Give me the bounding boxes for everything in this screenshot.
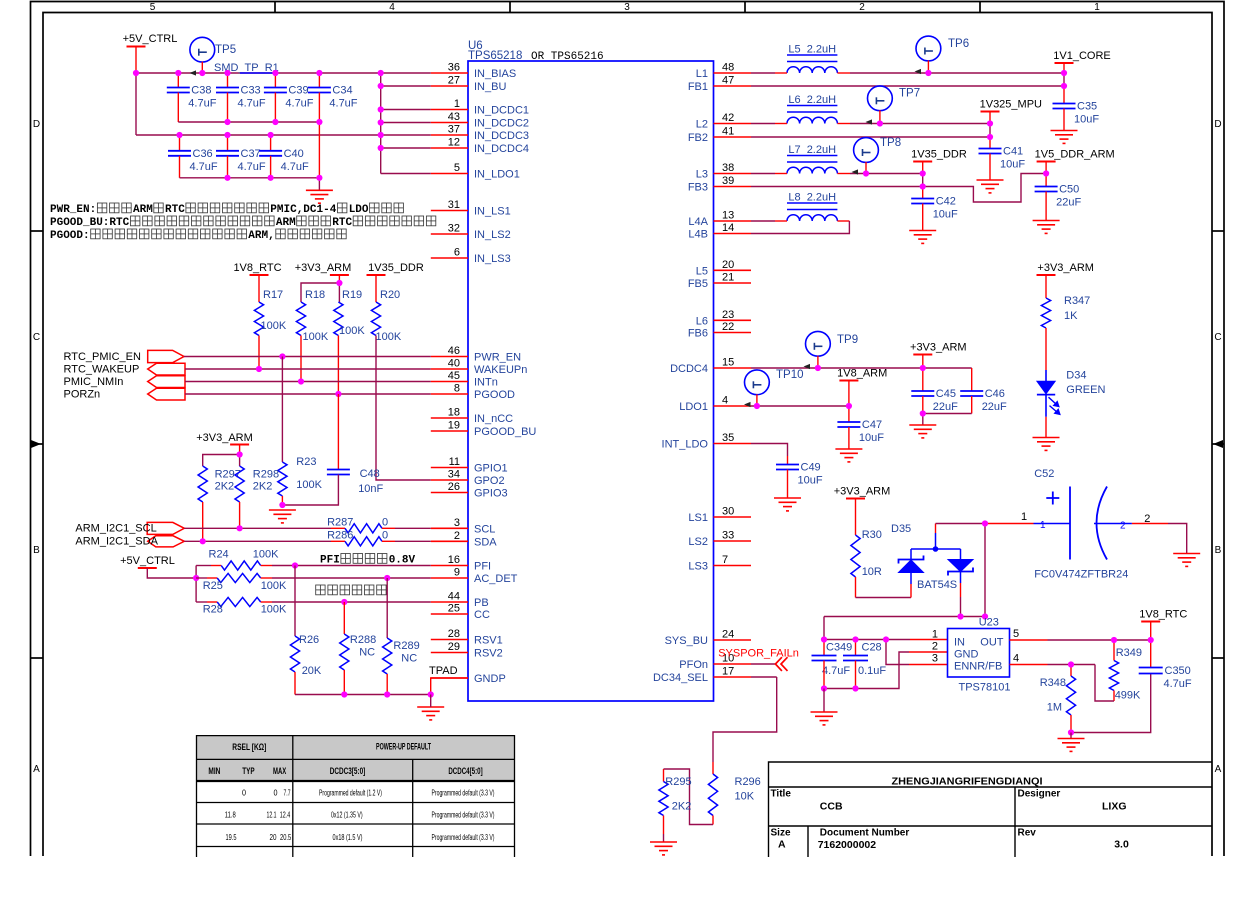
svg-text:5: 5 [1013, 628, 1019, 640]
wire TP8 stem [865, 162, 867, 174]
capacitor C34 [318, 73, 320, 88]
svg-text:C33: C33 [241, 85, 261, 97]
ground R295 [650, 842, 677, 855]
wire C52 node down to backup bus [984, 524, 986, 617]
svg-text:L4B: L4B [688, 229, 708, 241]
svg-text:34: 34 [448, 469, 460, 481]
svg-text:R287: R287 [327, 517, 353, 529]
svg-text:28: 28 [448, 628, 460, 640]
wire R24 left [196, 565, 211, 567]
svg-text:R289: R289 [393, 640, 419, 652]
wire C46 bottom to C45 [923, 413, 972, 415]
capacitor C39 [274, 73, 276, 88]
svg-text:1M: 1M [1047, 702, 1062, 714]
svg-text:INT_LDO: INT_LDO [662, 439, 709, 451]
svg-text:1V35_DDR: 1V35_DDR [368, 262, 424, 274]
svg-text:2: 2 [932, 641, 938, 653]
svg-text:ARM_I2C1_SDA: ARM_I2C1_SDA [75, 536, 158, 548]
resistor R20 [375, 275, 377, 302]
wire R348 bottom [1070, 715, 1072, 733]
svg-text:21: 21 [722, 272, 734, 284]
svg-text:4.7uF: 4.7uF [281, 161, 309, 173]
wire +5V stem [135, 47, 137, 74]
wire L2 to L6 [751, 123, 775, 125]
svg-text:16: 16 [448, 554, 460, 566]
svg-text:IN_LS3: IN_LS3 [474, 253, 511, 265]
svg-text:24: 24 [722, 629, 734, 641]
svg-text:B: B [1215, 545, 1222, 556]
U6 left pin 2 SDA [431, 540, 468, 542]
wire L4A to L8 [751, 220, 775, 222]
svg-text:GND: GND [954, 649, 979, 661]
junction dots ldo1 [754, 403, 760, 409]
svg-text:+3V3_ARM: +3V3_ARM [1037, 262, 1094, 274]
svg-text:INTn: INTn [474, 377, 498, 389]
svg-text:Document Number: Document Number [820, 828, 910, 839]
power +3V3_ARM led [1037, 274, 1056, 276]
wire PWR_EN row [184, 356, 431, 358]
svg-text:OR TPS65216: OR TPS65216 [531, 51, 604, 63]
junction dots 1V35_DDR [863, 170, 869, 176]
svg-text:2: 2 [859, 2, 865, 13]
svg-text:4.7uF: 4.7uF [190, 161, 218, 173]
svg-text:Designer: Designer [1018, 789, 1061, 800]
junction dots bus2 [176, 132, 182, 138]
U6 right pin 4 LDO1 [714, 405, 752, 407]
wire L5 to 1V1_CORE [837, 72, 850, 74]
svg-text:10R: 10R [862, 566, 882, 578]
title block [769, 762, 1213, 857]
U6 right pin 7 LS3 [714, 565, 752, 567]
svg-text:100K: 100K [261, 580, 287, 592]
U6 right pin 13 L4A [714, 220, 752, 222]
U6 left pin 32 IN_LS2 [431, 233, 468, 235]
svg-text:C48: C48 [360, 468, 380, 480]
U6 left pin 40 WAKEUPn [431, 368, 468, 370]
svg-text:10nF: 10nF [358, 483, 383, 495]
svg-text:41: 41 [722, 126, 734, 138]
svg-text:18: 18 [448, 407, 460, 419]
power +5V_CTRL top [127, 46, 146, 48]
wire branch to R18 [301, 283, 339, 302]
svg-text:10uF: 10uF [798, 475, 823, 487]
wire R23 to gnd node [281, 496, 283, 505]
resistor R17 [258, 275, 260, 302]
svg-text:15: 15 [722, 357, 734, 369]
svg-text:A: A [778, 839, 786, 851]
svg-text:4.7uF: 4.7uF [822, 665, 850, 677]
svg-text:+5V_CTRL: +5V_CTRL [123, 33, 178, 45]
ground C50 [1033, 221, 1060, 234]
wire to ground dcdc4 [922, 414, 924, 426]
svg-text:FB3: FB3 [688, 182, 708, 194]
svg-text:R347: R347 [1064, 295, 1090, 307]
wire backup bus [824, 616, 985, 618]
U6 left pin 37 IN_DCDC3 [431, 134, 468, 136]
power label 1V325_MPU [981, 111, 1000, 113]
capacitor C45 [922, 368, 924, 391]
U6 left pin 36 IN_BIAS [431, 72, 468, 74]
U6 right pin 39 FB3 [714, 186, 752, 188]
svg-text:MIN: MIN [208, 766, 220, 776]
svg-text:PGOOD:: PGOOD: [50, 230, 90, 242]
U6 left pin 46 PWR_EN [431, 356, 468, 358]
svg-text:27: 27 [448, 75, 460, 87]
svg-text:GNDP: GNDP [474, 673, 506, 685]
svg-text:RTC: RTC [165, 204, 185, 216]
wire L7 to 1V35_DDR [837, 173, 850, 175]
wire 1V8_RTC stem [1150, 622, 1152, 641]
svg-text:40: 40 [448, 358, 460, 370]
svg-text:A: A [33, 764, 40, 775]
svg-text:B: B [33, 545, 40, 556]
capacitor C35 [1063, 86, 1065, 104]
wire FB2 row [751, 136, 990, 138]
svg-text:11.8: 11.8 [225, 811, 236, 820]
svg-text:Programmed default (1.2 V): Programmed default (1.2 V) [319, 789, 382, 798]
wire +5V pfi stem [147, 568, 196, 578]
U6 left pin 12 IN_DCDC4 [431, 147, 468, 149]
svg-text:Programmed default (3.3 V): Programmed default (3.3 V) [432, 811, 495, 820]
junction +3V3 pullup dot [336, 280, 342, 286]
wire TP7 stem [879, 110, 881, 123]
svg-text:0: 0 [242, 789, 246, 798]
junction +5V pfi [193, 575, 199, 581]
U6 right pin 42 L2 [714, 123, 752, 125]
resistor R19 [338, 283, 340, 302]
U6 left pin 34 GPO2 [431, 479, 468, 481]
svg-text:ARM,: ARM, [248, 230, 274, 242]
svg-text:TYP: TYP [242, 766, 254, 776]
power +3V3_ARM backup [846, 498, 865, 500]
wire divider gnd rail [1071, 674, 1151, 733]
svg-text:L3: L3 [696, 169, 708, 181]
wire SCL row [184, 527, 331, 529]
svg-text:25: 25 [448, 603, 460, 615]
wire C34 lead to rail2 [318, 122, 320, 178]
svg-text:C38: C38 [191, 85, 211, 97]
U6 right pin 41 FB2 [714, 136, 752, 138]
wire LDO1 row [751, 405, 849, 407]
svg-text:R20: R20 [380, 289, 400, 301]
op-amp U6 TPS65218 PMIC body [468, 61, 714, 701]
resistor R25 [217, 573, 261, 582]
svg-text:38: 38 [722, 162, 734, 174]
ground C45 C46 [909, 425, 936, 438]
svg-text:PB: PB [474, 597, 489, 609]
svg-text:PFOn: PFOn [679, 659, 708, 671]
svg-text:2K2: 2K2 [253, 481, 273, 493]
svg-text:31: 31 [448, 199, 460, 211]
U6 left pin 45 INTn [431, 381, 468, 383]
svg-text:22: 22 [722, 321, 734, 333]
svg-text:RSV1: RSV1 [474, 635, 503, 647]
wire R297 to SDA [202, 502, 204, 541]
svg-text:4.7uF: 4.7uF [188, 98, 216, 110]
wire 1V8_ARM stem [848, 381, 850, 407]
svg-text:PGOOD: PGOOD [474, 389, 515, 401]
junction dots bus1 [133, 70, 139, 76]
svg-text:GPIO3: GPIO3 [474, 488, 508, 500]
svg-text:R286: R286 [327, 530, 353, 542]
wire TP10 stem [756, 394, 758, 406]
svg-text:C34: C34 [332, 85, 352, 97]
wire trunk to IN_DCDC2 [381, 122, 431, 124]
offpage chevron SYSPOR_FAILn [775, 657, 787, 671]
resistor R289 [383, 638, 392, 674]
wire TP9 stem [817, 356, 819, 368]
wire U23 IN rail [824, 639, 910, 641]
svg-text:C52: C52 [1034, 468, 1054, 480]
capacitor C49 [776, 465, 799, 470]
svg-text:1V8_RTC: 1V8_RTC [1139, 609, 1187, 621]
wire PWR_EN down to R23 [281, 357, 283, 463]
wire trunk to IN_DCDC1 [381, 109, 431, 111]
wire DC34_SEL to R296 [751, 676, 777, 678]
wire U23 gnd return [824, 652, 909, 689]
power 1V35_DDR pullup [367, 274, 386, 276]
resistor R295 [659, 782, 668, 816]
svg-text:13: 13 [722, 210, 734, 222]
svg-text:33: 33 [722, 530, 734, 542]
testpoint TP8 [854, 138, 879, 163]
wire R349 bottom to FB [1113, 691, 1115, 702]
U6 left pin 3 SCL [431, 527, 468, 529]
svg-text:7: 7 [722, 554, 728, 566]
svg-text:D35: D35 [891, 523, 911, 535]
svg-text:4: 4 [722, 395, 728, 407]
wire left vertical [135, 73, 137, 135]
svg-text:RSV2: RSV2 [474, 648, 503, 660]
svg-text:C40: C40 [284, 148, 304, 160]
svg-text:10uF: 10uF [933, 209, 958, 221]
svg-text:FB1: FB1 [688, 81, 708, 93]
capacitor C38 [177, 73, 179, 88]
wire L3 to L7 [751, 173, 775, 175]
svg-text:1V8_ARM: 1V8_ARM [837, 368, 887, 380]
svg-text:IN_DCDC4: IN_DCDC4 [474, 143, 529, 155]
svg-text:R18: R18 [305, 289, 325, 301]
wire R289 top [386, 578, 388, 638]
svg-text:ARM: ARM [133, 204, 153, 216]
svg-text:30: 30 [722, 506, 734, 518]
svg-text:C: C [1214, 332, 1221, 343]
svg-text:1V5_DDR_ARM: 1V5_DDR_ARM [1035, 149, 1115, 161]
wire D35 cathode down to backup bus [960, 583, 962, 597]
svg-text:32: 32 [448, 223, 460, 235]
junction dots dcdc4 [815, 365, 821, 371]
U6 right pin 24 SYS_BU [714, 639, 752, 641]
svg-text:C35: C35 [1077, 101, 1097, 113]
port ARM_I2C1_SCL [147, 522, 184, 534]
svg-text:12: 12 [448, 137, 460, 149]
svg-text:R24: R24 [209, 549, 229, 561]
svg-text:100K: 100K [303, 331, 329, 343]
resistor R348 [1070, 665, 1072, 677]
junction dots i2c [237, 525, 243, 531]
testpoint TP10 [745, 370, 770, 395]
svg-text:R349: R349 [1116, 647, 1142, 659]
svg-text:R25: R25 [203, 580, 223, 592]
U6 left pin 5 IN_LDO1 [431, 173, 468, 175]
port PMIC_NMIn [148, 376, 185, 388]
svg-text:ARM: ARM [276, 217, 296, 229]
wire trunk to IN_LDO1 [381, 173, 431, 175]
wire PFOn [751, 663, 775, 665]
junction dots gnd rail [341, 691, 347, 697]
junction dots U23 input [821, 636, 827, 642]
wire marker near TP5 [190, 70, 197, 75]
svg-text:DCDC4[5:0]: DCDC4[5:0] [448, 766, 482, 776]
resistor R296 [708, 774, 717, 816]
U6 right pin 30 LS1 [714, 516, 752, 518]
U6 left pin 9 AC_DET [431, 577, 468, 579]
svg-text:3: 3 [932, 653, 938, 665]
wire marker TP8 [852, 169, 859, 174]
U6 left pin 19 PGOOD_BU [431, 430, 468, 432]
wire 1V35 stem [922, 162, 924, 174]
svg-text:GPO2: GPO2 [474, 475, 505, 487]
svg-text:C42: C42 [936, 196, 956, 208]
wire bus1 +5V to IN_BIAS [136, 72, 431, 74]
ground R348 [1070, 733, 1072, 739]
wire R18 to PMIC_NMIn [300, 336, 302, 382]
svg-text:22uF: 22uF [933, 401, 958, 413]
svg-text:IN_nCC: IN_nCC [474, 413, 513, 425]
svg-text:+3V3_ARM: +3V3_ARM [196, 432, 253, 444]
wire R25 to AC_DET [261, 577, 272, 579]
U6 right pin 23 L6 [714, 319, 752, 321]
svg-text:SDA: SDA [474, 536, 497, 548]
svg-text:C47: C47 [862, 419, 882, 431]
junction dots out net [1111, 637, 1117, 643]
svg-text:1: 1 [1094, 2, 1100, 13]
U6 left pin 26 GPIO3 [431, 492, 468, 494]
resistor R23 [278, 462, 287, 496]
svg-text:44: 44 [448, 591, 460, 603]
svg-text:29: 29 [448, 641, 460, 653]
U6 right pin 21 FB5 [714, 282, 752, 284]
wire rail2 to ground [318, 178, 320, 191]
resistor R24 [221, 561, 261, 570]
power label 1V8_RTC out [1141, 621, 1160, 623]
svg-text:26: 26 [448, 481, 460, 493]
U6 right pin 33 LS2 [714, 540, 752, 542]
svg-text:17: 17 [722, 666, 734, 678]
wire marker TP7 [866, 119, 873, 124]
svg-text:R26: R26 [299, 634, 319, 646]
svg-text:C28: C28 [862, 642, 882, 654]
wire R298 to SCL [239, 502, 241, 528]
wire R26 bottom [294, 672, 296, 695]
svg-text:+3V3_ARM: +3V3_ARM [910, 342, 967, 354]
svg-text:TP10: TP10 [776, 369, 804, 381]
svg-text:L6 2.2uH: L6 2.2uH [788, 94, 836, 106]
svg-text:R296: R296 [735, 776, 761, 788]
svg-text:+5V_CTRL: +5V_CTRL [120, 555, 175, 567]
svg-text:20K: 20K [302, 665, 322, 677]
wire gnd rail bottom [295, 694, 431, 696]
wire 1V325 node down [989, 124, 991, 138]
testpoint TP9 [806, 331, 831, 356]
svg-text:CCB: CCB [820, 801, 843, 813]
wire FB3 row [751, 186, 923, 188]
wire R288 top [343, 602, 345, 634]
wire L6 to 1V325_MPU [837, 123, 850, 125]
svg-text:RTC_PMIC_EN: RTC_PMIC_EN [64, 351, 141, 363]
svg-text:C349: C349 [826, 642, 852, 654]
svg-text:C36: C36 [193, 148, 213, 160]
svg-text:BAT54S: BAT54S [917, 579, 957, 591]
wire 1V1 node down [1063, 73, 1065, 86]
svg-text:L7 2.2uH: L7 2.2uH [788, 144, 836, 156]
svg-text:22uF: 22uF [1056, 197, 1081, 209]
wire R286 to pin SDA [382, 540, 395, 542]
junction dots 1V325_MPU [877, 120, 883, 126]
wire R296 bottom to R295 top [712, 816, 714, 825]
wire 1V5_DDR stem [1045, 162, 1047, 174]
wire R25 left [196, 577, 207, 579]
svg-text:TP9: TP9 [837, 334, 858, 346]
svg-text:ENNR/FB: ENNR/FB [954, 661, 1002, 673]
U6 right pin 14 L4B [714, 233, 752, 235]
capacitor C36 [179, 135, 181, 151]
wire D34 to ground [1045, 395, 1047, 417]
svg-text:22uF: 22uF [982, 401, 1007, 413]
wire L1 to L5 [751, 72, 775, 74]
svg-text:LS1: LS1 [688, 512, 708, 524]
svg-text:0.1uF: 0.1uF [858, 665, 886, 677]
svg-text:1V1_CORE: 1V1_CORE [1053, 50, 1110, 62]
junction dot C52 node [982, 520, 988, 526]
testpoint TP5 [190, 37, 215, 62]
capacitor C48 [337, 394, 339, 470]
svg-text:2K2: 2K2 [672, 801, 692, 813]
resistor R287 [345, 524, 382, 533]
svg-text:TPS65218: TPS65218 [468, 50, 522, 62]
svg-text:100K: 100K [261, 320, 287, 332]
capacitor C28 [855, 640, 857, 656]
svg-text:IN_DCDC2: IN_DCDC2 [474, 118, 529, 130]
svg-text:C46: C46 [985, 388, 1005, 400]
junction dots backup bus [957, 613, 963, 619]
resistor R347 [1041, 298, 1050, 328]
power label 1V5_DDR_ARM [1037, 161, 1056, 163]
wire +3V3 stem [338, 275, 340, 283]
capacitor C42 [922, 187, 924, 199]
svg-text:3: 3 [454, 517, 460, 529]
svg-text:D34: D34 [1066, 370, 1086, 382]
svg-text:PWR_EN: PWR_EN [474, 352, 521, 364]
power label 1V1_CORE [1055, 62, 1074, 64]
junction dots pfi rows [292, 562, 298, 568]
svg-text:0: 0 [274, 789, 278, 798]
svg-text:10uF: 10uF [1000, 159, 1025, 171]
wire C52 pin2 lead [1094, 523, 1132, 525]
svg-text:3: 3 [624, 2, 630, 13]
svg-text:R17: R17 [263, 289, 283, 301]
svg-text:LS3: LS3 [688, 561, 708, 573]
svg-text:LDO1: LDO1 [679, 401, 708, 413]
svg-text:6: 6 [454, 247, 460, 259]
svg-text:47: 47 [722, 75, 734, 87]
U6 left pin 44 PB [431, 601, 468, 603]
U6 left pin 18 IN_nCC [431, 417, 468, 419]
wire R288 bottom [343, 670, 345, 695]
testpoint TP7 [868, 86, 893, 111]
wire DCDC trunk vertical [380, 73, 382, 174]
ground R23 C48 [269, 510, 296, 523]
